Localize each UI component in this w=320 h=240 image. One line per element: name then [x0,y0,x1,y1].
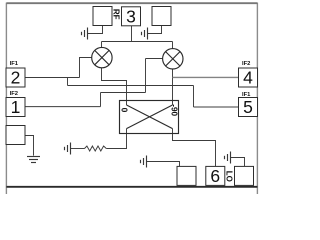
svg-text:IF1: IF1 [10,61,19,67]
svg-text:1: 1 [11,97,21,117]
ground G2 (rotated, near box B2) [142,28,148,40]
mixer M1 [92,47,112,67]
svg-text:-90: -90 [169,104,178,116]
port 3 box [122,6,141,26]
svg-text:5: 5 [243,97,253,117]
wire ground to resistor R1 [70,148,84,150]
wire IF2 horizontal [101,92,146,94]
hybrid coupler U1 [120,101,179,134]
ground G6 (below box B5) [27,157,40,163]
wire hybrid BR pin to port6 [173,129,216,167]
box B2 (top right subcircuit) [152,7,171,26]
wire mixer M2 bottom to hybrid TR pin [172,69,174,105]
svg-text:0: 0 [119,108,129,113]
wire up to mixer M1 left pin [80,58,92,78]
svg-text:RF: RF [112,9,121,20]
wire box B1 pin to ground [87,26,102,34]
wire port1 right [25,106,101,108]
port 4 box [239,68,258,88]
svg-text:4: 4 [243,68,253,88]
wire box B2 pin to ground [147,26,162,34]
wire to port5 [194,106,239,108]
wire port2 to junction [25,77,80,79]
wire IF1 long horizontal [68,85,194,87]
ground G4 (rotated, near box B3) [141,156,147,168]
wire box B3 pin to ground [146,162,179,167]
ground G1 (rotated, near box B1) [82,28,88,40]
frame border [6,3,257,194]
svg-text:IF1: IF1 [242,92,251,98]
wire port3 pin down [131,26,133,42]
ground G5 (rotated, near box B4) [225,152,231,164]
mixer M2 [163,49,183,69]
wire IF2 up to mixer M2 left level [145,59,147,93]
wire box B4 pin to ground [231,158,245,167]
wire IF1 down to port5 level [193,86,195,108]
wire to port4 [173,76,239,78]
svg-text:6: 6 [210,166,220,186]
box B3 (bottom subcircuit left of port 6) [177,166,196,185]
wire port1 up [100,93,102,107]
frame title-block divider [6,186,257,188]
wire mixer M1 bottom to hybrid TL pin [102,68,127,105]
ground G3 (rotated, at resistor R1) [65,143,71,155]
wire down to mixer M2 top [172,42,174,49]
svg-text:3: 3 [126,6,136,26]
svg-text:2: 2 [11,68,21,88]
svg-text:IF2: IF2 [10,91,18,97]
box B4 (bottom right subcircuit) [235,166,254,185]
wire to mixer M2 left pin [146,58,163,60]
wire box B5 pin to ground [25,136,34,156]
port 6 box [206,166,225,186]
port 5 box [239,97,258,117]
svg-text:LO: LO [224,171,233,182]
svg-text:IF2: IF2 [242,61,250,67]
port 1 box [6,97,25,117]
wire hybrid BL pin to resistor [106,129,126,149]
wire IF1 branch down [67,78,69,86]
resistor R1 [85,146,107,151]
wire down to mixer M1 top [101,42,103,48]
wire RF distribution [102,41,173,43]
box B5 (left edge subcircuit) [6,126,25,145]
port 2 box [6,68,25,88]
box B1 (top left subcircuit) [93,7,112,26]
